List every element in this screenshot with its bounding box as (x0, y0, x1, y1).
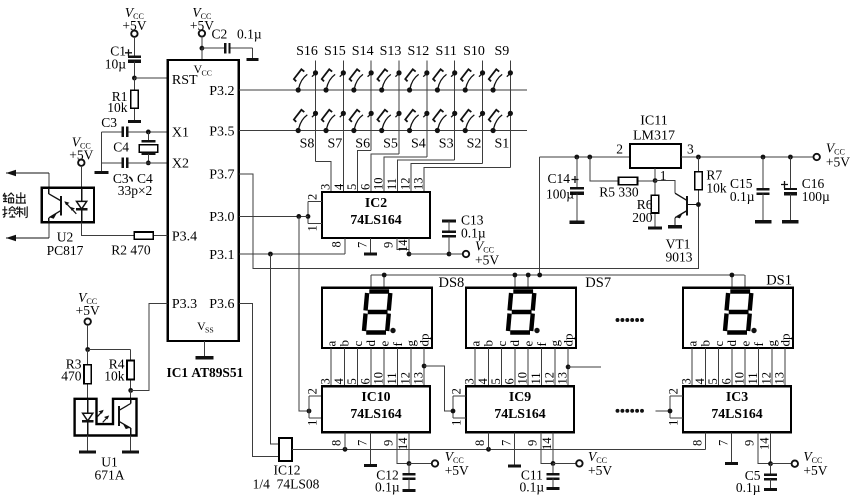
ground G4 (Vss) (204, 341, 206, 358)
node E (P3.1 to IC12 branch) (268, 252, 273, 257)
node F (IC2 Vcc) (407, 252, 412, 257)
svg-text:+5V: +5V (588, 463, 612, 478)
capacitor C12 0.1u (408, 464, 410, 474)
svg-text:11: 11 (385, 178, 399, 190)
node A (RST junction) (132, 76, 137, 81)
wire IC2 pins 1-2 bracket (308, 201, 322, 203)
svg-text:S6: S6 (355, 137, 370, 152)
svg-text:2: 2 (616, 142, 623, 157)
ellipsis (cascade continues) (616, 409, 620, 413)
svg-text:C4: C4 (113, 139, 129, 154)
svg-text:10k: 10k (706, 181, 727, 196)
svg-text:IC11: IC11 (640, 114, 667, 129)
capacitor C14 100u electrolytic (576, 157, 578, 188)
svg-text:9013: 9013 (666, 250, 693, 265)
ground G9 (R6) (648, 227, 662, 230)
wire switch column 4 (398, 61, 400, 154)
IC3 74LS164 shift register (683, 386, 791, 432)
wire to Vcc terminal T5 (449, 253, 463, 255)
svg-text:11: 11 (529, 372, 543, 384)
node X2 crystal tap (146, 161, 151, 166)
wire supply to R4 (88, 349, 131, 351)
wire IC3 pins 9+14 (758, 432, 771, 463)
svg-text:12: 12 (398, 178, 412, 191)
svg-text:+5V: +5V (445, 463, 469, 478)
display DS1 7-segment (683, 288, 793, 348)
wire switch column 7 (482, 61, 484, 164)
svg-text:S16: S16 (296, 44, 318, 59)
wire switch column 3 (370, 61, 372, 151)
wire IC3 pin 8 (705, 432, 707, 449)
node D (P3.0 branch) (296, 214, 301, 219)
svg-text:13: 13 (412, 372, 426, 385)
svg-text:0.1µ: 0.1µ (736, 480, 761, 495)
svg-text:7: 7 (355, 440, 369, 446)
svg-text:IC12: IC12 (274, 463, 301, 478)
svg-text:0.1µ: 0.1µ (375, 480, 400, 495)
wire U2 emitter output with arrow (48, 222, 50, 238)
svg-text:+5V: +5V (803, 463, 827, 478)
svg-text:dp: dp (560, 334, 575, 347)
wire LM317 output line (540, 156, 630, 158)
node B (R3/R4 supply junction) (85, 347, 90, 352)
wire P3.0 down to IC10 (299, 216, 309, 411)
svg-text:14: 14 (758, 437, 772, 450)
resistor R4 10k (130, 350, 132, 361)
svg-text:7: 7 (499, 440, 513, 446)
svg-text:14: 14 (396, 437, 410, 450)
svg-text:10: 10 (733, 372, 747, 385)
transistor VT1 9013 (655, 181, 675, 194)
wire row P3.5 (239, 130, 527, 132)
svg-text:12: 12 (759, 372, 773, 385)
ground G12 (C16) (782, 220, 799, 223)
svg-text:74LS164: 74LS164 (494, 406, 545, 421)
wire IC2 Vcc line (409, 253, 449, 255)
wire crystal ground rail (101, 132, 103, 173)
svg-text:C14: C14 (547, 171, 570, 186)
node IC2 serial input (306, 214, 311, 219)
svg-text:12: 12 (398, 372, 412, 385)
ground G1 (R1) (128, 120, 141, 123)
wire column 1 jog to IC2 pin (316, 162, 332, 193)
wires DS8 segment leads (330, 348, 332, 386)
resistor R3 470 (87, 350, 89, 365)
svg-text:P3.1: P3.1 (209, 248, 234, 263)
switch S1 (490, 128, 495, 133)
wire IC10 pins 9+14 (397, 432, 409, 463)
wire IC10 Vcc to terminal (409, 463, 432, 465)
wire R4 bottom to U1 collector (130, 390, 132, 398)
node C (R4/P3.3 junction) (128, 388, 133, 393)
wire IC10 pins 1-2 bracket (309, 395, 322, 397)
Vcc +5V terminal T5 (IC2 supply) (463, 251, 469, 257)
svg-text:CC: CC (202, 68, 212, 77)
node H (ADJ node) (653, 178, 658, 183)
svg-text:671A: 671A (95, 468, 125, 483)
svg-text:3: 3 (319, 378, 333, 384)
switch S12 (407, 87, 412, 92)
svg-text:S8: S8 (300, 137, 315, 152)
svg-text:IC9: IC9 (509, 389, 531, 404)
ground G11 (C15) (755, 220, 772, 223)
ground G7 (IC2 pin 7) (370, 238, 372, 254)
svg-text:S7: S7 (327, 137, 342, 152)
svg-text:12: 12 (542, 372, 556, 385)
switch S5 (379, 128, 384, 133)
svg-text:S3: S3 (439, 137, 454, 152)
svg-text:+5V: +5V (826, 154, 850, 169)
wire cascade into IC3 (656, 410, 670, 412)
node G (C13 junction) (447, 252, 452, 257)
wire switch column 5 (426, 61, 428, 158)
svg-text:C3: C3 (101, 115, 117, 130)
svg-text:+5V: +5V (475, 252, 499, 267)
svg-text:S11: S11 (436, 44, 457, 59)
svg-text:R5 330: R5 330 (599, 185, 639, 200)
resistor R1 10k (133, 78, 135, 90)
capacitor C1 10u electrolytic (133, 50, 135, 57)
svg-text:P3.6: P3.6 (209, 297, 234, 312)
wire P3.1 branch to IC12 input 1 (270, 254, 279, 444)
svg-text:P3.3: P3.3 (172, 297, 197, 312)
node R5 junction (587, 155, 592, 160)
wire X2 to IC1 (148, 162, 167, 164)
wire IC9 pins 9+14 (541, 432, 553, 463)
svg-text:S14: S14 (352, 44, 374, 59)
node rail supply (537, 273, 542, 278)
svg-text:dp: dp (777, 334, 792, 347)
capacitor C5 0.1u (770, 464, 772, 475)
node IC9 serial input (451, 409, 456, 414)
svg-text:1: 1 (667, 420, 681, 426)
wire column 8 jog to IC2 pin (424, 167, 510, 192)
ground G10 (VT1 emitter) (668, 225, 682, 228)
wire P3.6 to IC12 input 2 (239, 304, 279, 457)
wire column 5 jog to IC2 pin (384, 157, 427, 192)
svg-text:S10: S10 (463, 44, 485, 59)
ground G6 (U1 transistor) (130, 436, 132, 452)
wire cascade IC10 to IC9 (424, 366, 453, 411)
crystal Y1 (147, 132, 149, 141)
wire row P3.2 (239, 89, 527, 91)
node rail DS7b (526, 273, 531, 278)
regulator IC11 LM317 (630, 144, 681, 168)
svg-text:P3.2: P3.2 (209, 84, 234, 99)
svg-text:9: 9 (382, 242, 396, 248)
node rail DS8 (382, 273, 387, 278)
svg-text:DS7: DS7 (585, 275, 611, 291)
svg-text:IC1 AT89S51: IC1 AT89S51 (167, 365, 244, 380)
svg-text:4: 4 (476, 378, 490, 385)
capacitor C11 0.1u (552, 463, 554, 473)
switch S14 (351, 87, 356, 92)
wire IC3 pins 1-2 bracket (670, 395, 683, 397)
switch S11 (435, 87, 440, 92)
wire P3.7 to VT1 base network (239, 174, 699, 269)
svg-text:14: 14 (396, 239, 410, 252)
optocoupler U1 671A photointerrupter (75, 399, 137, 436)
svg-text:C2: C2 (212, 27, 228, 42)
svg-text:DS1: DS1 (766, 272, 792, 288)
switch S15 (323, 87, 328, 92)
wire IC9 pin 8 (488, 432, 490, 449)
svg-text:7: 7 (355, 242, 369, 248)
svg-text:P3.0: P3.0 (209, 210, 234, 225)
svg-text:6: 6 (719, 378, 733, 384)
svg-text:74LS164: 74LS164 (350, 406, 401, 421)
ground G2 (crystal caps) (95, 171, 109, 174)
wire IC9 Vcc to terminal (553, 462, 576, 464)
svg-text:6: 6 (358, 378, 372, 384)
AND gate IC12 1/4 74LS08 (279, 438, 292, 461)
svg-text:X1: X1 (172, 126, 189, 141)
ground G17 (IC3 pin 7) (731, 432, 733, 463)
switch S7 (323, 128, 328, 133)
display DS7 7-segment (466, 288, 576, 348)
node IC1 Vcc junction (200, 46, 205, 51)
ground G14 (C12) (403, 489, 416, 492)
svg-text:4: 4 (332, 378, 346, 385)
svg-text:74LS164: 74LS164 (350, 212, 401, 227)
svg-text:4: 4 (693, 378, 707, 385)
svg-text:8: 8 (330, 241, 344, 247)
svg-text:74LS164: 74LS164 (711, 406, 762, 421)
resistor R5 330 (590, 157, 601, 181)
switch S16 (296, 87, 301, 92)
node rail DS1 (730, 273, 735, 278)
svg-text:5: 5 (345, 378, 359, 384)
wire IC9 pins 1-2 bracket (453, 395, 466, 397)
label output control (Chinese) (2, 192, 27, 217)
svg-text:8: 8 (330, 440, 344, 446)
wire X1 to IC1 (148, 131, 167, 133)
ground G5 (U1 LED) (87, 436, 89, 452)
svg-text:0.1µ: 0.1µ (730, 189, 755, 204)
wire LM317 adj pin 1 (654, 168, 656, 181)
ground G13 (IC10 pin 7) (370, 432, 372, 465)
node rail DS7a (513, 273, 518, 278)
wire column 7 jog to IC2 pin (411, 164, 483, 192)
svg-text:S2: S2 (467, 137, 482, 152)
wires DS7 segment leads (474, 348, 476, 386)
ground G18 (C5) (764, 488, 777, 491)
svg-text:4: 4 (332, 183, 346, 190)
node I (R7/VT1 base node) (696, 202, 701, 207)
switch S4 (407, 128, 412, 133)
svg-text:S9: S9 (494, 44, 509, 59)
svg-text:13: 13 (773, 372, 787, 385)
wire DS8 common leads (370, 275, 372, 288)
svg-text:PC817: PC817 (47, 243, 84, 258)
wire IC2 pins 9+14 to Vcc (397, 238, 409, 249)
svg-text:5: 5 (345, 184, 359, 190)
resistor R2 470 (120, 235, 135, 237)
node J (IC10 QH to DS8 dp lead) (422, 364, 427, 369)
svg-text:10µ: 10µ (105, 57, 127, 72)
svg-text:14: 14 (540, 437, 554, 450)
Vcc +5V terminal T9 (IC3) (792, 461, 798, 467)
svg-text:RST: RST (172, 73, 198, 88)
capacitor C4 33p (102, 162, 123, 164)
node clk IC9 (486, 447, 491, 452)
node X1 crystal tap (146, 130, 151, 135)
svg-text:S1: S1 (494, 137, 509, 152)
wire switch column 6 (454, 61, 456, 161)
resistor R7 10k (697, 157, 699, 172)
capacitor C2 0.1u (202, 47, 225, 49)
svg-text:10: 10 (372, 372, 386, 385)
svg-text:1: 1 (306, 225, 320, 231)
svg-text:S12: S12 (407, 44, 429, 59)
wire display anode rail (371, 274, 745, 276)
svg-text:11: 11 (746, 372, 760, 384)
svg-text:10k: 10k (107, 100, 128, 115)
svg-text:3: 3 (319, 184, 333, 190)
ground G15 (IC9 pin 7) (514, 432, 516, 465)
svg-text:S4: S4 (411, 137, 426, 152)
svg-text:DS8: DS8 (439, 275, 465, 291)
IC10 74LS164 shift register (322, 386, 430, 432)
wire cascade IC9 onward (568, 366, 601, 368)
node clk IC10 (343, 447, 348, 452)
wire U2 cathode to R2 (82, 222, 120, 235)
svg-text:+5V: +5V (76, 303, 100, 318)
svg-text:0.1µ: 0.1µ (237, 27, 262, 42)
svg-text:2: 2 (450, 388, 464, 394)
svg-text:2: 2 (306, 388, 320, 394)
svg-text:9: 9 (526, 440, 540, 446)
svg-text:IC2: IC2 (365, 195, 387, 210)
svg-text:200: 200 (632, 210, 653, 225)
switch S6 (351, 128, 356, 133)
wire switch column 2 (342, 61, 344, 193)
svg-text:IC10: IC10 (361, 389, 390, 404)
svg-text:3: 3 (463, 378, 477, 384)
capacitor C13 0.1u (inverted to ground) (442, 220, 456, 223)
svg-text:10k: 10k (104, 368, 125, 383)
switch S13 (379, 87, 384, 92)
wire switch column 1 (315, 61, 317, 162)
svg-text:S5: S5 (383, 137, 398, 152)
switch S2 (463, 128, 468, 133)
wire IC3 Vcc to terminal (771, 463, 792, 465)
node C14 junction (574, 155, 579, 160)
node R7 top (696, 155, 701, 160)
wires DS1 segment leads (691, 348, 693, 386)
resistor R6 200 (654, 181, 656, 196)
svg-text:1: 1 (450, 420, 464, 426)
svg-text:IC3: IC3 (726, 389, 748, 404)
wire DS1 common leads (731, 275, 733, 288)
svg-text:1/4 74LS08: 1/4 74LS08 (253, 477, 320, 492)
optocoupler U2 PC817 (42, 188, 94, 223)
svg-text:3: 3 (687, 142, 694, 157)
svg-text:470: 470 (61, 368, 82, 383)
ground G8 (C14) (569, 221, 584, 224)
wire column 4 jog to IC2 pin (371, 154, 399, 192)
switch S10 (463, 87, 468, 92)
svg-text:100µ: 100µ (802, 189, 830, 204)
svg-text:33p×2: 33p×2 (118, 183, 153, 198)
switch S9 (490, 87, 495, 92)
wire P3.1 to IC2 clock pin 8 (239, 253, 345, 255)
wire column 3 jog to IC2 pin (358, 150, 372, 192)
svg-text:100µ: 100µ (546, 187, 574, 202)
node N (IC3 Vcc) (768, 461, 773, 466)
node M (IC9 Vcc) (551, 461, 556, 466)
svg-text:SS: SS (205, 326, 214, 335)
switch S8 (296, 128, 301, 133)
svg-text:S13: S13 (380, 44, 402, 59)
node K (IC9 QH to DS7 dp lead) (566, 365, 571, 370)
node IC3 serial input (668, 409, 673, 414)
svg-text:10: 10 (516, 372, 530, 385)
svg-text:8: 8 (473, 440, 487, 446)
wire LM317 output drop (539, 157, 541, 275)
node IC10 serial input (307, 409, 312, 414)
svg-text:10: 10 (372, 178, 386, 191)
ground G3 (C2) (252, 48, 254, 59)
svg-text:13: 13 (556, 372, 570, 385)
svg-text:R2 470: R2 470 (111, 243, 151, 258)
Vcc +5V terminal T7 (IC10) (432, 460, 438, 466)
svg-text:5: 5 (706, 378, 720, 384)
svg-text:6: 6 (358, 184, 372, 190)
display DS8 7-segment (322, 288, 432, 348)
svg-text:6: 6 (502, 378, 516, 384)
capacitor C3 33p (102, 131, 123, 133)
capacitor C15 0.1u (762, 157, 764, 189)
svg-text:2: 2 (306, 194, 320, 200)
IC2 74LS164 shift register (322, 192, 430, 238)
svg-text:1: 1 (306, 420, 320, 426)
IC9 74LS164 shift register (466, 386, 574, 432)
svg-text:P3.7: P3.7 (209, 168, 234, 183)
node C15 junction (761, 155, 766, 160)
wire U2 collector output with arrow (48, 173, 50, 188)
IC1 AT89S51 microcontroller box (168, 60, 239, 341)
wire IC12 output clock line (292, 448, 706, 450)
ground G16 (C11) (547, 487, 560, 490)
svg-text:2: 2 (667, 388, 681, 394)
svg-text:P3.4: P3.4 (172, 229, 197, 244)
wire P3.0 to IC2 (239, 215, 308, 217)
svg-text:9: 9 (382, 440, 396, 446)
svg-text:8: 8 (690, 440, 704, 446)
svg-text:3: 3 (680, 378, 694, 384)
switch S3 (435, 128, 440, 133)
svg-text:dp: dp (416, 334, 431, 347)
Vcc +5V terminal T6 (main supply) (814, 154, 820, 160)
svg-text:13: 13 (412, 178, 426, 191)
wire LM317 input line (681, 156, 814, 158)
node C16 junction (788, 155, 793, 160)
wire DS7 common leads (514, 275, 516, 288)
wire column 6 jog to IC2 pin (398, 160, 455, 192)
svg-text:5: 5 (489, 378, 503, 384)
Vcc +5V terminal T8 (IC9) (576, 460, 582, 466)
svg-text:LM317: LM317 (633, 129, 675, 144)
svg-text:7: 7 (716, 440, 730, 446)
svg-text:9: 9 (743, 440, 757, 446)
svg-text:P3.5: P3.5 (209, 124, 234, 139)
wire IC10 pin 8 (344, 432, 346, 449)
capacitor C16 100u electrolytic (789, 157, 791, 189)
wire P3.3 to R4 bottom (131, 304, 168, 391)
svg-text:0.1µ: 0.1µ (519, 480, 544, 495)
svg-text:X2: X2 (172, 157, 189, 172)
